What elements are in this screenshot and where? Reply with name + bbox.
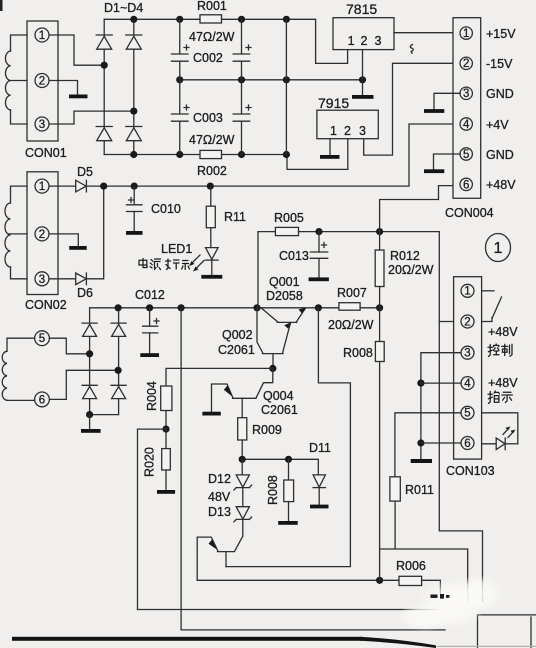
svg-text:5: 5 [464,408,470,420]
transformer winding T1b [5,186,27,279]
svg-text:+48V: +48V [488,325,518,339]
diode D11 [313,475,325,505]
capacitor (C002 pair right) [233,45,251,61]
svg-text:R001: R001 [197,0,227,13]
svg-text:47Ω/2W: 47Ω/2W [189,30,235,44]
ground symbol (CON01 pin2) [69,95,88,99]
zener rail (R009 bottom) [242,459,318,475]
wire CON02 pin1 to D5 [49,185,76,187]
svg-text:R011: R011 [405,483,434,497]
ground symbol (LED1) [201,275,222,279]
connector CON02 [27,172,58,295]
svg-text:7815: 7815 [346,1,377,17]
resistor R020 [162,429,171,490]
+4V rail from D5 to CON004 pin4 [87,124,461,186]
svg-text:GND: GND [486,148,514,162]
transistor Q002 [257,308,291,369]
lower bridge column 1 wire [89,308,91,415]
LED1 [206,248,219,275]
diode D4 [126,127,142,141]
svg-text:LED1: LED1 [161,242,192,256]
svg-text:1: 1 [348,34,355,48]
svg-text:R020: R020 [143,447,157,477]
wire 7915 pin1 to ground [329,139,331,155]
zener diode D12 [234,459,252,490]
CON004 pin 4 [460,118,472,131]
wire CON004 pin2 to 7915 output [364,63,461,155]
solder blob mark [431,594,450,599]
wire pin5 to lower bridge node C [49,338,89,354]
+48V control rail [299,232,462,322]
switch S1 wire from pin1 [482,290,494,292]
svg-text:CON01: CON01 [25,146,67,160]
wire 7915 pin2 stub [347,139,349,170]
svg-text:D1~D4: D1~D4 [104,1,143,15]
bridge column 1 wire [103,19,105,154]
svg-text:+15V: +15V [486,27,516,41]
svg-text:+48V: +48V [488,376,518,390]
CON01 pin 1 [35,28,49,42]
plain column wire [285,19,287,154]
capacitor (C003 pair right) [233,105,251,121]
wire bridge bottom to ground [89,415,91,429]
resistor R006 [399,576,440,594]
bridge column 2 wire [133,19,135,154]
ground symbol (D11) [310,505,329,509]
transistor Q003 [197,537,234,580]
LED2 indicator [496,438,518,450]
scan edge artifact top-left [0,0,3,11]
net label control (hanzi) [488,344,512,357]
junctions on middle GND rail [176,76,366,83]
transistor Q001 [262,308,306,323]
connector CON01 [27,21,58,141]
svg-text:47Ω/2W: 47Ω/2W [189,133,235,147]
svg-text:2: 2 [361,34,368,48]
svg-text:CON02: CON02 [25,298,67,312]
wire CON01 pin2 to ground [50,81,78,95]
ground symbol (R008) [278,521,298,525]
label power indicator (hanzi) 电源指示 [139,259,190,270]
svg-text:D6: D6 [77,286,93,300]
svg-text:7915: 7915 [318,95,349,111]
svg-text:+48V: +48V [486,178,516,192]
svg-text:6: 6 [39,394,45,406]
svg-text:1: 1 [39,181,45,193]
wire CON02 pin3 to D6 [49,278,76,280]
CON004 pin 6 [460,178,472,191]
svg-text:Q004: Q004 [263,389,294,403]
svg-text:R004: R004 [145,381,159,411]
squiggle mark [410,45,413,54]
wire CON103 pin6 [421,442,461,444]
regulator U1 7815 [333,18,394,50]
diode D7 [82,323,97,336]
zener diode D13 [234,488,252,522]
junction R006 node [376,577,383,584]
diode D5 [76,180,87,192]
capacitor C002 [172,45,190,61]
capacitor C003 [172,105,190,121]
junction rail/Q003 feedback [315,304,322,311]
LED1 indicator arrows [189,255,204,272]
svg-text:R009: R009 [252,423,282,437]
wire CON103 pin5 right to LED cathode [482,413,518,444]
svg-text:D12: D12 [208,472,231,486]
resistor R007 [339,303,360,311]
winding center tap wire [9,80,27,82]
svg-text:D13: D13 [208,505,231,519]
connector CON103 [454,277,482,459]
CON01 pin 2 [35,74,49,88]
resistor R005 with branch wire [258,227,299,307]
svg-text:Q001: Q001 [269,275,300,289]
CON02 pin 3 [35,272,49,286]
wire CON004 pin6 +48V step [380,186,461,232]
junction R004/R020 [162,426,169,433]
svg-text:+4V: +4V [486,118,509,132]
svg-text:R008: R008 [266,475,280,505]
resistor R001 [200,15,222,23]
svg-text:3: 3 [39,119,45,131]
node C junction [86,350,93,357]
svg-text:3: 3 [359,124,366,138]
svg-text:-15V: -15V [486,57,513,71]
ground symbol (CON004 pin3) [424,109,444,113]
ground symbol (7815 pin2) [352,95,374,99]
CON103 pin 6 [461,437,474,450]
CON103 pin 2 [461,315,474,328]
resistor R008 (zener bias) [284,459,294,521]
CON004 pin 2 [460,57,472,70]
long wire C012 rail down to bottom [180,308,182,630]
svg-text:2: 2 [39,229,45,241]
svg-text:D2058: D2058 [266,289,303,303]
CON103 pin 1 [461,284,474,297]
junction D6/rail [100,183,107,190]
CON01 pin 3 [35,117,49,131]
filter column C002 wire [179,19,181,154]
thick bottom border line [12,637,436,648]
junction rail/bridge col2 [115,304,122,311]
wire CON01 pin1 to bridge node A [50,35,105,65]
resistor R011 [390,477,400,501]
diode D3 [96,127,112,141]
wire D6 cathode up to +4V rail [87,186,104,279]
CON103 pin 3 [461,346,474,359]
junctions on bottom rail [130,151,290,158]
wire base node down to Q004 collector [256,368,273,398]
ground symbol (Q004 emitter) [202,412,220,416]
junction rail/R012-R008 [376,304,383,311]
wire Q003 base feedback loop [226,308,350,567]
CON004 pin 1 [460,27,472,40]
middle GND rail [180,79,363,81]
LED2 arrows [503,427,516,438]
svg-text:6: 6 [463,179,469,191]
wire CON103 pin5 to R011 [395,413,461,477]
svg-text:CON103: CON103 [446,464,495,478]
transistor Q004 [212,384,257,418]
resistor R002 [200,150,222,158]
junction R012/+48V step [376,228,383,235]
ground symbol (CON02 pin2) [69,246,87,250]
svg-text:C013: C013 [279,249,309,263]
svg-text:R002: R002 [197,164,227,178]
net label indicate (hanzi) [488,391,512,404]
junction pin4/gnd chain [417,380,424,387]
svg-text:1: 1 [39,30,45,42]
bottom right corner wire [478,615,536,648]
wire +48V control column down to bottom right [439,322,482,602]
junction rail/R005 branch [253,304,260,311]
svg-text:1: 1 [330,124,337,138]
resistor R009 [238,418,247,460]
ground symbol (CON004 pin5) [424,169,444,173]
svg-text:1: 1 [463,28,469,40]
svg-text:5: 5 [463,149,469,161]
svg-text:3: 3 [463,88,469,100]
svg-text:20Ω/2W: 20Ω/2W [388,263,434,277]
svg-text:R005: R005 [274,211,304,225]
wire R008 column down to R006 node [379,362,381,581]
ground symbol (C010) [126,231,143,235]
svg-text:GND: GND [486,87,514,101]
+48V unregulated rail (C012 rail) [90,307,380,309]
svg-text:D5: D5 [77,165,93,179]
svg-text:2: 2 [463,58,469,70]
svg-text:2: 2 [344,124,351,138]
top rail (+) and 7815 input step [104,19,347,63]
ground symbol (7915 pin1) [320,155,340,159]
wire D13 to Q003 collector [235,519,243,551]
svg-text:2: 2 [464,316,470,328]
svg-text:20Ω/2W: 20Ω/2W [328,318,374,332]
junction C013/rail [315,228,322,235]
transformer winding T1a [5,35,27,124]
CON103 pin 4 [461,377,474,390]
wire R004 junction to long left line [138,429,167,609]
CON02 pin 2 [35,227,49,241]
junction C010/rail [131,183,138,190]
lower bridge bottom junction [86,411,93,418]
svg-text:R007: R007 [337,286,367,300]
wire CON004 pin5 to ground [434,154,461,169]
switch S1 lever [482,297,502,322]
svg-text:C2061: C2061 [218,343,255,357]
wire pin6 to lower bridge node D [49,370,118,399]
ground symbol (C012) [140,353,159,357]
junction zener rail/R009 [239,456,246,463]
junction R11/rail [207,183,214,190]
junctions on top rail [130,16,290,23]
ground symbol (lower bridge) [81,429,101,433]
svg-text:C010: C010 [151,202,181,216]
junction pin6/gnd chain [417,439,424,446]
long bottom wire 1 [138,609,437,611]
transformer winding T1c [2,338,34,400]
svg-text:C003: C003 [193,111,223,125]
junction Q002 base node [269,365,276,372]
wire CON103 pin4 [421,382,461,384]
ground symbol (R020) [157,490,175,494]
regulator U2 7915 [317,110,378,139]
junction rail/down-line [178,304,185,311]
capacitor C012 [143,308,159,353]
svg-text:1: 1 [494,240,503,257]
node B junction [130,108,137,115]
ground symbol (CON103) [411,459,432,463]
CON004 pin 5 [460,148,472,161]
wire 7815 output to CON004 pin1 [394,32,460,34]
junction rail/C012 [146,304,153,311]
resistor R008 (series) [375,308,384,362]
node D junction [115,367,122,374]
diode D1 [96,35,112,49]
wire 7815 pin2 to GND rail [362,50,364,95]
junction zener rail/R008 [285,456,292,463]
wire base node to R004 [166,368,273,386]
svg-text:R012: R012 [390,249,420,263]
svg-text:R11: R11 [224,210,246,224]
svg-text:4: 4 [464,378,471,390]
capacitor C010 [127,186,143,231]
winding pin 5 [35,331,50,346]
diode D9 [82,385,97,398]
filter column right wire [241,19,243,154]
svg-text:48V: 48V [208,490,231,504]
CON02 pin 1 [35,179,49,193]
svg-text:C002: C002 [193,51,223,65]
winding pin 6 [35,392,50,407]
wire CON01 pin3 to bridge node B [50,111,134,124]
svg-text:Q002: Q002 [222,328,253,342]
resistor R11 [206,186,215,248]
faint page edge line [437,645,536,647]
svg-text:1: 1 [464,286,470,298]
wire CON103 pin3 ground chain [421,353,461,459]
svg-text:6: 6 [464,438,470,450]
CON103 pin 5 [461,406,474,419]
diode D8 [111,323,126,336]
wire R011 bottom link [381,501,468,601]
ground symbol (C013) [309,277,329,281]
bottom rail (-) to 7915 input [104,155,348,170]
wire CON103 pin6 to LED anode [482,443,497,445]
svg-text:3: 3 [464,348,470,360]
diode D2 [126,35,142,49]
svg-text:R006: R006 [396,559,426,573]
connector CON004 [453,18,481,199]
diode D6 [76,273,87,285]
svg-text:R008: R008 [343,346,373,360]
node A junction [101,62,108,69]
page marker circled 1 [486,234,511,262]
svg-text:C2061: C2061 [261,403,298,417]
svg-text:4: 4 [463,119,470,131]
wire CON004 pin3 to ground [434,93,460,109]
wire Q003 emitter to R006 [197,579,399,581]
svg-text:C012: C012 [135,288,165,302]
long bottom wire 2 [181,629,445,631]
svg-text:3: 3 [39,274,45,286]
solder blob mark [431,594,450,599]
resistor R004 [161,386,172,429]
lower bridge column 2 wire [90,308,119,415]
CON004 pin 3 [460,87,472,100]
svg-text:2: 2 [39,76,45,88]
winding T1b center tap [9,233,27,235]
svg-text:5: 5 [39,333,45,345]
resistor R012 [375,232,384,308]
svg-text:CON004: CON004 [445,206,494,220]
svg-text:3: 3 [375,34,382,48]
svg-text:D11: D11 [309,441,331,455]
wire CON02 pin2 to ground [49,234,78,246]
diode D10 [111,385,126,398]
white scan smudge [397,575,504,631]
capacitor C013 [310,232,327,278]
